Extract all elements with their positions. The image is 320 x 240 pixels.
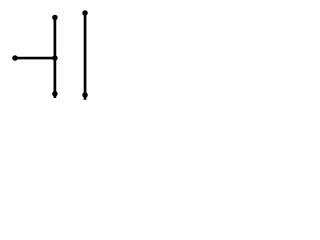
node: T-junction of horizontal and left vertical wire — [52, 55, 58, 61]
node: near bottom of right vertical wire — [82, 92, 88, 98]
node: top of right vertical wire — [82, 10, 88, 16]
wire: left vertical segment — [54, 18, 57, 99]
wire: horizontal segment from left node to T-junction — [15, 57, 56, 60]
node: left end of horizontal wire — [12, 55, 18, 61]
node: near bottom of left vertical wire — [52, 91, 58, 97]
wire: right vertical segment — [84, 13, 87, 100]
node: top of left vertical wire — [52, 15, 58, 21]
